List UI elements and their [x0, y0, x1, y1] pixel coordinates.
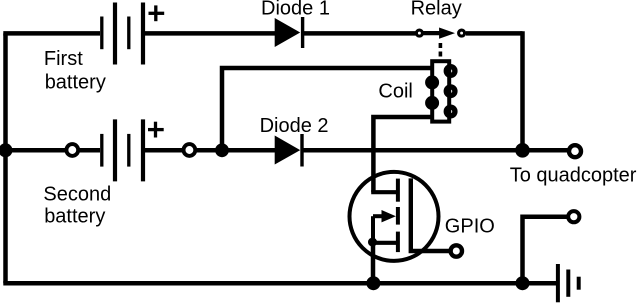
relay armature arrow [422, 31, 444, 35]
battery connector circle (right of battery 2) [184, 144, 196, 156]
battery B1 plus sign [149, 5, 165, 21]
Q1 body arrow [373, 214, 383, 218]
junction dot: bottom rail right [516, 276, 530, 290]
battery B1 short plate (inner) [127, 17, 130, 50]
battery B1 long plate (positive, right) [141, 3, 145, 65]
diode D1 triangle [275, 18, 301, 47]
wire: coil bottom feed to MOSFET drain [373, 117, 432, 192]
Q1 channel dash (drain) [396, 179, 400, 202]
battery B2 long plate (positive, right) [141, 119, 145, 181]
svg-text:Coil: Coil [378, 80, 412, 102]
coil right loop bumps [446, 67, 455, 76]
battery B2 short plate (negative, left) [100, 134, 103, 167]
battery B2 short plate (inner) [127, 134, 130, 167]
relay right contact circle [459, 30, 465, 36]
battery B1 short plate (negative, left) [100, 17, 103, 50]
ground bar short [577, 277, 581, 290]
diode D2 cathode bar [300, 134, 303, 167]
wire: rail 2 from left rail to battery 2 [6, 148, 101, 153]
wire: relay to right corner [466, 31, 523, 36]
diode D2 triangle [275, 136, 301, 165]
wire: coil top feed from branch [222, 68, 432, 150]
battery B1 long plate [113, 3, 117, 65]
relay left contact circle [416, 30, 422, 36]
junction dot: coil branch on rail 2 [215, 143, 229, 157]
wire: diode 1 to relay [303, 31, 417, 36]
svg-text:battery: battery [45, 71, 106, 93]
wire: Q1 body to source vertical [371, 216, 375, 243]
junction dot: Q1 source at bottom rail [366, 276, 380, 290]
junction dot: rail 2 at left rail [0, 143, 13, 157]
Q1 drain bar [371, 190, 398, 194]
junction dot: Q1 source/body [368, 238, 377, 247]
svg-text:Relay: Relay [411, 0, 462, 20]
battery connector circle (left of battery 2) [66, 144, 78, 156]
wire: left vertical rail [3, 33, 8, 283]
svg-text:Diode 2: Diode 2 [260, 115, 329, 137]
svg-text:To quadcopter: To quadcopter [510, 165, 637, 187]
svg-text:GPIO: GPIO [445, 215, 495, 237]
terminal: GPIO (open circle) [451, 245, 462, 256]
battery B2 long plate [113, 119, 117, 181]
terminal: mid-right (open circle) [568, 211, 579, 222]
wire: mid-right terminal to bottom rail [523, 217, 568, 284]
Q1 gate lead to GPIO [411, 249, 451, 251]
svg-text:Second: Second [43, 184, 111, 206]
Q1 source bar [370, 241, 398, 245]
wire: bottom rail [3, 281, 556, 286]
svg-text:Diode 1: Diode 1 [261, 0, 330, 20]
Q1 channel dash (body) [396, 207, 400, 225]
diode D1 cathode bar [301, 17, 304, 48]
wire: battery 1 to diode 1 [143, 31, 276, 36]
wire: Q1 source down to bottom rail [371, 242, 376, 283]
wire: vertical from relay corner down to rail 2 [520, 31, 525, 150]
battery B2 plus sign [148, 122, 164, 138]
Q1 gate electrode [409, 178, 413, 249]
junction dot: rail 2 at relay drop [515, 143, 530, 158]
svg-text:battery: battery [44, 206, 105, 228]
ground bar long [556, 264, 560, 302]
coil left loop bumps [428, 78, 437, 87]
coil body rectangle [432, 61, 449, 121]
ground bar medium [566, 270, 570, 297]
wire: diode 2 to quadcopter terminal [302, 148, 568, 153]
transistor Q1 MOSFET circle [350, 172, 439, 261]
terminal: to quadcopter (open circle) [569, 145, 581, 157]
relay dashed actuator link [439, 43, 443, 59]
svg-text:First: First [44, 48, 83, 70]
wire: top rail from left corner to battery 1 [3, 31, 100, 36]
wire: battery 2 to junction [143, 148, 276, 153]
Q1 channel dash (source) [396, 232, 400, 253]
